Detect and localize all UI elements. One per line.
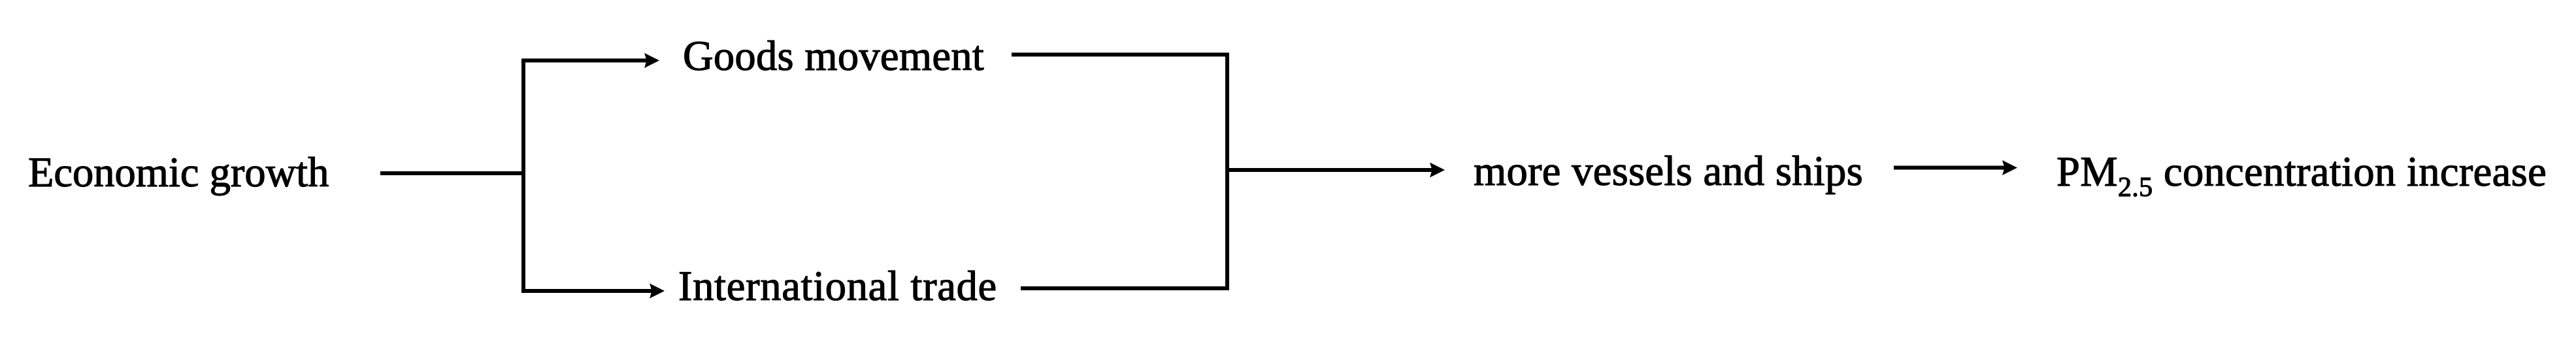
svg-text:Goods movement: Goods movement: [683, 33, 984, 79]
svg-text:Economic growth: Economic growth: [28, 149, 329, 195]
svg-text:PM2.5 concentration increase: PM2.5 concentration increase: [2056, 148, 2547, 203]
wire Goods movement to merge point: [1012, 53, 1229, 57]
wire arrow shaft merge to more vessels and ships: [1227, 168, 1432, 172]
wire merge vertical (right bracket): [1225, 53, 1229, 291]
wire Economic growth to branch point: [380, 171, 523, 175]
wire International trade to merge point: [1021, 286, 1229, 290]
svg-text:International trade: International trade: [678, 263, 997, 309]
svg-text:more vessels and ships: more vessels and ships: [1474, 148, 1863, 194]
arrowhead to more vessels and ships: [1430, 163, 1445, 178]
arrowhead to Goods movement: [644, 53, 659, 68]
arrowhead to International trade: [650, 284, 665, 299]
wire arrow shaft more vessels and ships to PM2.5: [1894, 166, 2005, 170]
wire branch vertical (left bracket): [521, 59, 525, 294]
arrowhead to PM2.5 concentration increase: [2002, 160, 2017, 175]
wire arrow shaft to International trade: [521, 289, 652, 293]
wire arrow shaft to Goods movement: [521, 59, 647, 63]
